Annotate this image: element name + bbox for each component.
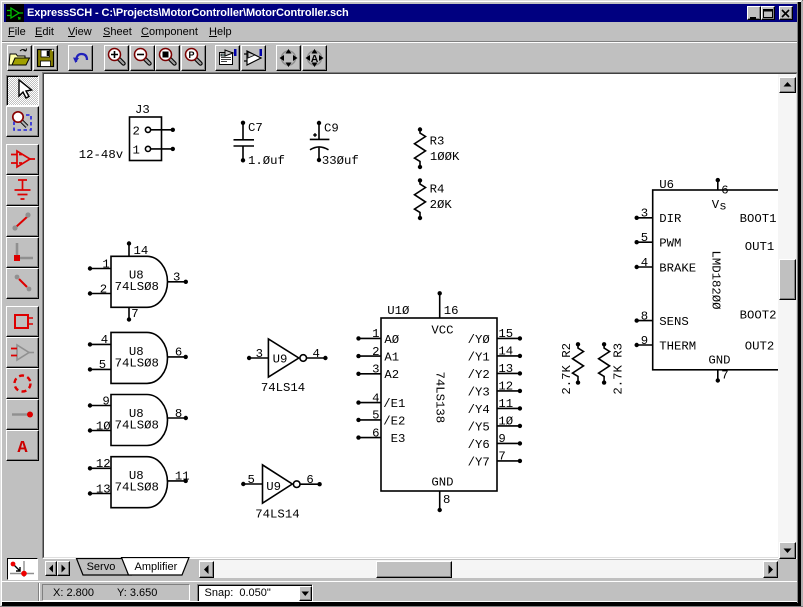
svg-text:3: 3	[173, 271, 180, 285]
svg-text:1Ø: 1Ø	[96, 419, 111, 433]
svg-text:3: 3	[372, 363, 379, 377]
wire U10 pin13	[497, 371, 522, 375]
horizontal scrollbar	[199, 560, 778, 578]
wire U8d pin12	[88, 466, 111, 470]
wire U10 pin7	[497, 459, 522, 463]
palette: split wire tool	[6, 268, 39, 299]
wire U8b pin4	[88, 342, 111, 346]
svg-text:GND: GND	[708, 354, 730, 368]
toolbar: zoom previous button	[181, 45, 206, 71]
svg-text:2: 2	[133, 125, 140, 139]
wire U10 pin4	[356, 400, 381, 404]
toolbar: pan auto button	[302, 45, 327, 71]
app icon	[6, 4, 24, 22]
decoder U10 74LS138 body	[381, 318, 497, 491]
svg-text:8: 8	[443, 493, 450, 507]
svg-text:/E2: /E2	[383, 414, 405, 428]
wire U6 pin4 BRAKE	[635, 265, 653, 269]
svg-text:9: 9	[102, 394, 109, 408]
svg-text:J3: J3	[135, 103, 150, 117]
svg-text:A2: A2	[384, 368, 399, 382]
svg-text:1: 1	[102, 257, 109, 271]
svg-text:AØ: AØ	[384, 333, 399, 347]
wire J3 pin2	[151, 128, 175, 132]
svg-text:14: 14	[134, 244, 149, 258]
svg-text:4: 4	[641, 256, 648, 270]
inverter U9b body	[263, 465, 301, 503]
svg-text:5: 5	[372, 409, 379, 423]
vscroll down button	[779, 542, 796, 559]
svg-text:74LSØ8: 74LSØ8	[115, 280, 159, 294]
svg-text:16: 16	[444, 304, 459, 318]
svg-text:3: 3	[641, 207, 648, 221]
menu/toolbar separator	[2, 41, 801, 42]
wire U9a pin4 output	[307, 356, 328, 360]
svg-text:R3: R3	[430, 135, 445, 149]
toolbar: zoom in button	[104, 45, 129, 71]
svg-text:GND: GND	[431, 475, 453, 489]
svg-text:74LSØ8: 74LSØ8	[115, 481, 159, 495]
svg-text:/Y5: /Y5	[468, 420, 490, 434]
svg-text:s: s	[719, 200, 726, 214]
wire U8d pin11 output	[168, 479, 188, 483]
svg-text:A1: A1	[384, 351, 399, 365]
svg-text:4: 4	[372, 391, 379, 405]
svg-text:33Øuf: 33Øuf	[322, 154, 359, 168]
palette: select tool (active)	[6, 75, 39, 106]
svg-text:U1Ø: U1Ø	[387, 304, 410, 318]
svg-text:74LS14: 74LS14	[261, 381, 305, 395]
svg-text:2.7K R2: 2.7K R2	[560, 343, 574, 395]
svg-text:8: 8	[175, 407, 182, 421]
svg-text:/YØ: /YØ	[468, 333, 491, 347]
svg-text:A: A	[17, 439, 28, 458]
wire U6 pin8 SENS	[635, 318, 653, 322]
wire U6 pin5 PWM	[635, 240, 653, 244]
svg-text:E3: E3	[391, 432, 406, 446]
svg-text:/E1: /E1	[383, 397, 405, 411]
svg-text:11: 11	[175, 470, 190, 484]
svg-text:12: 12	[96, 457, 111, 471]
palette: corner/junction tool	[6, 237, 39, 268]
palette: zoom to selection tool	[6, 106, 39, 137]
resistor R2 2.7K	[573, 342, 584, 385]
wire U6 pin3 DIR	[635, 216, 653, 220]
svg-text:11: 11	[498, 397, 513, 411]
svg-text:C9: C9	[324, 122, 339, 136]
svg-text:15: 15	[498, 327, 513, 341]
toolbar: component properties button	[215, 45, 240, 71]
toolbar: zoom out button	[130, 45, 155, 71]
wire U8a pin1	[88, 266, 111, 270]
wire U6 pin9 THERM	[635, 343, 653, 347]
tab Servo	[70, 558, 132, 576]
wire U8b pin5	[88, 367, 111, 371]
svg-text:1Ø: 1Ø	[498, 415, 513, 429]
snap combo box	[197, 584, 313, 603]
svg-text:/Y2: /Y2	[468, 368, 490, 382]
svg-text:A: A	[311, 53, 319, 65]
capacitor C9 (polarized)	[310, 121, 330, 162]
wire U9b pin5 input	[241, 482, 262, 486]
svg-text:14: 14	[498, 345, 513, 359]
palette: text tool	[6, 430, 39, 461]
wire U10 pin11	[497, 406, 522, 410]
vscroll up button	[779, 77, 796, 93]
wire U10 pin16 VCC	[438, 291, 442, 318]
status bar top highlight	[2, 581, 801, 582]
svg-text:6: 6	[721, 184, 728, 198]
wire U10 pin1	[356, 336, 381, 340]
AND gate U8d body	[111, 457, 168, 508]
bottom strip: tab arrows	[45, 561, 58, 576]
status left column groove	[38, 583, 39, 602]
titlebar buttons	[747, 6, 761, 20]
toolbar: pan button	[276, 45, 301, 71]
svg-text:/Y1: /Y1	[468, 350, 490, 364]
svg-text:6: 6	[372, 426, 379, 440]
wire U10 pin10	[497, 424, 522, 428]
vscroll thumb	[779, 259, 796, 300]
driver U6 LMD18200 body	[653, 190, 782, 370]
toolbar: undo button	[68, 45, 93, 71]
svg-text:DIR: DIR	[659, 212, 682, 226]
svg-text:R4: R4	[430, 183, 445, 197]
svg-text:6: 6	[306, 473, 313, 487]
tab Amplifier (active)	[117, 557, 191, 576]
svg-text:BRAKE: BRAKE	[659, 261, 696, 275]
svg-text:U9: U9	[266, 480, 281, 494]
svg-text:2ØK: 2ØK	[430, 198, 453, 212]
svg-text:5: 5	[99, 358, 106, 372]
wire U10 pin8 GND	[438, 491, 442, 512]
svg-text:2: 2	[100, 283, 107, 297]
inverter U9a body	[268, 339, 306, 377]
svg-text:2: 2	[372, 345, 379, 359]
wire U8b pin6 output	[168, 355, 188, 359]
svg-text:74LSØ8: 74LSØ8	[115, 418, 159, 432]
palette: edit symbol tool	[6, 337, 39, 368]
resistor R3	[415, 127, 426, 169]
menu bar	[8, 26, 26, 38]
wire U8a pin7 GND	[127, 307, 131, 321]
svg-text:5: 5	[248, 473, 255, 487]
wire U10 pin3	[356, 372, 381, 376]
svg-text:LMD182ØØ: LMD182ØØ	[709, 250, 723, 310]
wire U10 pin9	[497, 441, 522, 445]
svg-text:OUT1: OUT1	[745, 240, 775, 254]
svg-text:P: P	[188, 50, 194, 60]
toolbar: save button	[33, 45, 58, 71]
connector J3	[130, 117, 162, 161]
svg-text:/Y3: /Y3	[468, 385, 490, 399]
wire U10 pin5	[356, 418, 381, 422]
svg-text:/Y6: /Y6	[468, 438, 490, 452]
wire U8d pin13	[88, 491, 111, 495]
canvas sunken border	[42, 72, 798, 559]
resistor R3 2.7K	[599, 342, 610, 385]
svg-text:74LS138: 74LS138	[433, 371, 447, 423]
svg-text:13: 13	[498, 362, 513, 376]
toolbar: zoom all button	[155, 45, 180, 71]
svg-text:4: 4	[313, 347, 320, 361]
svg-text:/Y4: /Y4	[468, 403, 490, 417]
svg-text:1: 1	[372, 327, 379, 341]
svg-text:13: 13	[96, 482, 111, 496]
svg-text:U6: U6	[659, 178, 674, 192]
svg-text:7: 7	[721, 369, 728, 383]
palette: place ground tool	[6, 175, 39, 206]
palette: pin tool	[6, 399, 39, 430]
capacitor C7	[234, 121, 255, 163]
svg-text:74LSØ8: 74LSØ8	[115, 356, 159, 370]
wire U6 pin7 GND	[716, 370, 720, 383]
palette: place component tool	[6, 144, 39, 175]
wire U10 pin6	[356, 435, 381, 439]
svg-text:7: 7	[498, 450, 505, 464]
svg-text:VCC: VCC	[431, 324, 453, 338]
wire U10 pin15	[497, 336, 522, 340]
svg-text:4: 4	[101, 333, 108, 347]
wire U10 pin2	[356, 354, 381, 358]
svg-text:9: 9	[498, 432, 505, 446]
svg-text:/Y7: /Y7	[468, 455, 490, 469]
svg-text:BOOT2: BOOT2	[740, 309, 777, 323]
palette: circle tool	[6, 368, 39, 399]
svg-text:12: 12	[498, 380, 513, 394]
title text	[27, 7, 349, 19]
wire U8a pin2	[88, 291, 111, 295]
svg-text:OUT2: OUT2	[745, 339, 775, 353]
svg-text:2.7K R3: 2.7K R3	[611, 343, 625, 395]
wire U9b pin6 output	[300, 482, 322, 486]
AND gate U8a body	[111, 256, 168, 307]
svg-text:8: 8	[641, 309, 648, 323]
svg-text:7: 7	[131, 307, 138, 321]
resistor R4	[415, 178, 426, 220]
window bottom border	[1, 601, 802, 602]
svg-text:1.Øuf: 1.Øuf	[248, 154, 285, 168]
wire U8c pin10	[88, 428, 111, 432]
palette group separator	[6, 137, 39, 144]
svg-text:74LS14: 74LS14	[255, 507, 299, 521]
wire U8c pin8 output	[168, 416, 188, 420]
white canvas	[44, 74, 778, 557]
title bar	[4, 4, 799, 22]
wire U8a pin3 output	[168, 280, 188, 284]
svg-text:PWM: PWM	[659, 237, 681, 251]
svg-text:1ØØK: 1ØØK	[430, 150, 460, 164]
wire U8a pin14 VCC	[127, 241, 131, 256]
wire U8c pin9	[88, 403, 111, 407]
svg-text:C7: C7	[248, 121, 263, 135]
hscroll right button	[763, 561, 778, 578]
status panel X/Y	[42, 584, 190, 601]
svg-text:THERM: THERM	[659, 339, 696, 353]
hscroll thumb	[376, 561, 451, 578]
palette: place wire tool	[6, 206, 39, 237]
hscroll left button	[199, 561, 214, 578]
wire U10 pin12	[497, 389, 522, 393]
toolbar: edit component button	[241, 45, 266, 71]
svg-text:3: 3	[256, 347, 263, 361]
svg-text:1: 1	[133, 144, 140, 158]
svg-text:5: 5	[641, 231, 648, 245]
wire U10 pin14	[497, 354, 522, 358]
svg-text:BOOT1: BOOT1	[740, 212, 777, 226]
toolbar: open button	[7, 45, 32, 71]
wire J3 pin1	[151, 147, 175, 151]
svg-text:12-48v: 12-48v	[79, 148, 123, 162]
origin button bottom-left	[7, 558, 38, 580]
svg-text:U9: U9	[273, 353, 288, 367]
AND gate U8c body	[111, 395, 168, 446]
vertical scrollbar track	[778, 74, 796, 558]
palette: rectangle tool	[6, 306, 39, 337]
wire U9a pin3 input	[247, 356, 268, 360]
svg-text:6: 6	[175, 346, 182, 360]
wire U6 pin6 Vs	[716, 178, 720, 190]
window right border	[797, 2, 798, 603]
AND gate U8b body	[111, 332, 168, 383]
svg-text:SENS: SENS	[659, 315, 689, 329]
pin label Vs	[712, 198, 727, 214]
svg-text:9: 9	[641, 334, 648, 348]
